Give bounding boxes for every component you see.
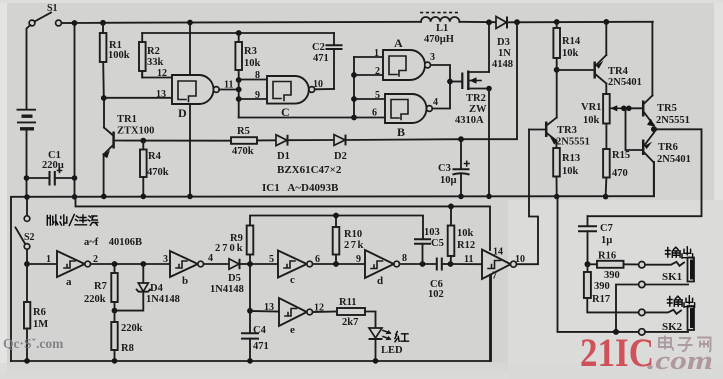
svg-text:11: 11 [224, 80, 233, 91]
jack SK1 tip circle [639, 262, 645, 268]
inverter a [27, 251, 90, 288]
resistor R8 220k [111, 311, 142, 361]
svg-text:9: 9 [255, 90, 260, 101]
svg-text:10k: 10k [457, 228, 474, 239]
svg-text:R13: R13 [562, 153, 580, 164]
resistor R1 100k [100, 20, 130, 98]
wire C output pin 10 to C2 [315, 88, 334, 90]
svg-text:R4: R4 [148, 151, 162, 162]
capacitor C3 10u [438, 139, 470, 196]
capacitor C6 102 [428, 258, 451, 301]
wire ground rail [11, 162, 654, 361]
svg-text:470k: 470k [147, 167, 169, 178]
svg-text:S2: S2 [24, 232, 35, 243]
transistor TR4 2N5401 [557, 22, 642, 94]
svg-text:390: 390 [604, 270, 620, 281]
node R10 bottom [333, 261, 339, 267]
wire S1 right to top rail [61, 22, 74, 24]
resistor R2 33k [139, 33, 164, 78]
svg-text:D3: D3 [497, 37, 510, 48]
svg-text:2: 2 [375, 66, 380, 77]
wire B out pin 4 [432, 82, 450, 109]
svg-text:TR2: TR2 [466, 93, 486, 104]
capacitor C4 471 [241, 325, 269, 361]
svg-text:R17: R17 [592, 294, 610, 305]
wire d out pin8 [400, 263, 437, 265]
capacitor C7 1u [578, 216, 613, 264]
svg-text:10: 10 [313, 79, 323, 90]
svg-text:ZTX100: ZTX100 [117, 126, 154, 137]
svg-text:100k: 100k [108, 50, 130, 61]
svg-text:c: c [290, 274, 295, 286]
wire D output pin 11 [219, 89, 239, 91]
svg-text:C2: C2 [312, 42, 325, 53]
resistor R14 10k [553, 22, 580, 70]
label pulse/continuous [47, 215, 98, 226]
svg-text:470: 470 [612, 168, 628, 179]
jack SK2 sleeve circle [639, 329, 645, 335]
svg-text:470k: 470k [232, 146, 254, 157]
diode D3 1N4148 [492, 17, 513, 71]
svg-text:BZX61C47×2: BZX61C47×2 [277, 164, 342, 176]
node R4 top [140, 138, 146, 144]
svg-text:11: 11 [464, 254, 473, 265]
inverter e [247, 264, 324, 336]
node C3 top [458, 136, 464, 142]
svg-text:b: b [182, 275, 188, 287]
svg-text:14: 14 [493, 247, 503, 258]
svg-text:1M: 1M [33, 319, 48, 330]
inverter f (pins 11/10, 14/7) [451, 247, 526, 282]
svg-text:2k7: 2k7 [342, 317, 358, 328]
capacitor C5 103 [414, 227, 444, 264]
diode D2 [334, 135, 461, 162]
diode D1 [276, 135, 334, 162]
svg-text:6: 6 [372, 108, 377, 119]
NAND gate C [267, 76, 315, 119]
jack SK2 tip circle [639, 309, 645, 315]
svg-text:220k: 220k [121, 323, 143, 334]
battery B1 [17, 110, 37, 129]
wire output node to right edge [588, 129, 702, 216]
svg-text:471: 471 [313, 53, 329, 64]
jack SK2 [662, 306, 694, 333]
svg-text:d: d [377, 275, 383, 287]
transistor TR3 2N5551 [529, 118, 590, 149]
resistor R3 10k [235, 30, 260, 80]
svg-text:TR1: TR1 [117, 114, 137, 125]
node TR1 collector / pin13 [101, 95, 107, 101]
svg-text:21IC: 21IC [580, 330, 654, 375]
wire pin 1 [354, 56, 383, 58]
node pin11 junction column [236, 77, 242, 83]
svg-text:4: 4 [433, 97, 438, 108]
svg-text:ZW: ZW [469, 104, 487, 115]
svg-text:3: 3 [163, 254, 168, 265]
svg-text:Qc·Sˇ.com: Qc·Sˇ.com [3, 336, 64, 351]
LED red [369, 328, 404, 361]
resistor R10 27k [333, 216, 365, 265]
svg-text:R5: R5 [237, 126, 250, 137]
svg-text:C7: C7 [600, 223, 613, 234]
wire A out pin 3 [431, 65, 451, 82]
svg-text:1N: 1N [498, 48, 511, 59]
svg-text:R15: R15 [612, 150, 630, 161]
wire b out pin4 [204, 263, 230, 265]
svg-text:470µH: 470µH [424, 34, 454, 45]
label output2 (Chinese) [668, 296, 695, 307]
transistor TR6 2N5401 [643, 128, 691, 196]
wire feedback line y33 [142, 32, 334, 34]
resistor R12 10k [448, 204, 475, 265]
svg-text:9: 9 [356, 254, 361, 265]
svg-text:TR5: TR5 [657, 103, 677, 114]
svg-text:D: D [178, 106, 187, 120]
svg-text:.com: .com [647, 346, 713, 375]
wire f out to TR3 base [517, 130, 539, 265]
inverter d [356, 250, 400, 287]
svg-text:R14: R14 [562, 36, 581, 47]
svg-text:2: 2 [93, 254, 98, 265]
wire SK1 sleeve [645, 284, 688, 286]
wire f pin7 to bottom rail [489, 275, 491, 361]
wire pin 6 / feedback from pin11 column [239, 117, 385, 119]
resistor R4 470k [140, 141, 169, 197]
svg-text:5: 5 [269, 254, 274, 265]
node C6/R12/f [448, 261, 454, 267]
wire VR1 wiper to TR5/TR6 bases [622, 107, 642, 109]
svg-text:e: e [290, 324, 295, 336]
node L1/D3 [486, 19, 492, 25]
node TR2 source at ground [486, 194, 492, 200]
svg-text:R16: R16 [598, 251, 616, 262]
svg-text:10k: 10k [244, 58, 261, 69]
svg-text:33k: 33k [147, 57, 164, 68]
svg-text:B: B [397, 125, 405, 139]
wire base drop to TR6 [626, 108, 642, 150]
svg-text:D1: D1 [277, 151, 290, 162]
jack SK1 sleeve circle [639, 281, 645, 287]
svg-text:C4: C4 [253, 325, 267, 336]
svg-text:13: 13 [264, 302, 274, 313]
wire long vertical x190 [189, 23, 191, 197]
svg-text:L1: L1 [436, 23, 448, 34]
svg-text:R3: R3 [244, 46, 257, 57]
svg-text:4: 4 [208, 253, 213, 264]
svg-text:a~f 40106B: a~f 40106B [84, 237, 142, 248]
svg-text:VR1: VR1 [581, 102, 601, 113]
wire pin 5 [354, 98, 385, 100]
svg-text:2N5401: 2N5401 [608, 77, 642, 88]
inductor L1 470uH [420, 13, 459, 45]
wire a out [91, 263, 171, 265]
svg-text:220k: 220k [84, 294, 106, 305]
svg-text:IC1 A~D4093B: IC1 A~D4093B [262, 182, 339, 194]
svg-text:4310A: 4310A [455, 115, 484, 126]
svg-text:10k: 10k [562, 48, 579, 59]
svg-text:3: 3 [430, 52, 435, 63]
svg-text:R6: R6 [33, 307, 46, 318]
resistor R17 390 [584, 264, 639, 312]
wire TR1 base [115, 140, 231, 142]
label output1 (Chinese) [666, 247, 693, 258]
svg-text:R7: R7 [94, 281, 107, 292]
resistor R7 220k [84, 264, 118, 311]
node battery/C1 [24, 175, 30, 181]
svg-text:TR3: TR3 [557, 125, 577, 136]
wire pin 2 [354, 74, 383, 76]
capacitor C2 471 [312, 33, 343, 89]
svg-text:1N4148: 1N4148 [210, 284, 244, 295]
wire c out pin6 [313, 263, 366, 265]
svg-text:13: 13 [156, 89, 166, 100]
svg-text:8: 8 [402, 253, 407, 264]
wire to SK2 tip [645, 310, 681, 314]
svg-text:R11: R11 [339, 297, 357, 308]
svg-text:R10: R10 [344, 229, 362, 240]
wire pin 13 [104, 97, 172, 99]
resistor R15 470 [603, 124, 630, 197]
switch S1 [29, 3, 61, 26]
wire battery to ground rail [26, 130, 28, 197]
resistor R16 390 [588, 251, 639, 282]
svg-text:TR4: TR4 [608, 66, 629, 77]
wire lower supply rail [76, 197, 491, 250]
node R14 bottom / TR4 base [554, 67, 560, 73]
svg-text:270k: 270k [215, 243, 245, 254]
svg-text:S1: S1 [47, 3, 58, 14]
svg-text:6: 6 [315, 254, 320, 265]
svg-text:C5: C5 [431, 238, 444, 249]
svg-text:471: 471 [253, 341, 269, 352]
svg-text:D4: D4 [150, 283, 164, 294]
node TR2 gate [447, 79, 453, 85]
resistor R9 270k [215, 216, 423, 265]
resistor R6 1M [24, 264, 48, 361]
transistor TR1 ZTX100 [103, 100, 154, 196]
wire bottom rail [11, 272, 491, 362]
jack SK1 [662, 258, 694, 284]
svg-text:5: 5 [375, 90, 380, 101]
svg-text:R8: R8 [121, 343, 134, 354]
svg-text:8: 8 [255, 70, 260, 81]
inverter b [163, 251, 204, 287]
svg-text:4148: 4148 [492, 59, 513, 70]
resistor R5 470k [231, 126, 276, 157]
svg-text:1: 1 [46, 254, 51, 265]
node C7/R16/R17 [585, 261, 591, 267]
NAND gate D [172, 75, 219, 120]
svg-text:A: A [394, 36, 403, 50]
NAND gate B [385, 94, 432, 139]
svg-text:a: a [66, 276, 72, 288]
wire S1 left down to battery [27, 25, 31, 109]
node D5/R9/C4 [247, 261, 253, 267]
diode D5 1N4148 [210, 259, 250, 295]
svg-text:1N4148: 1N4148 [146, 294, 180, 305]
NAND gate A [383, 36, 431, 80]
resistor R13 10k [553, 148, 580, 197]
svg-text:1µ: 1µ [601, 235, 612, 246]
node C5 bottom [420, 261, 426, 267]
svg-text:TR6: TR6 [658, 142, 678, 153]
svg-text:C3: C3 [438, 163, 451, 174]
svg-text:10µ: 10µ [440, 175, 457, 186]
wire pin 9 [239, 98, 267, 100]
wire top rail left segment [75, 22, 104, 24]
svg-text:10k: 10k [562, 166, 579, 177]
svg-text:12: 12 [157, 68, 167, 79]
svg-text:D2: D2 [334, 151, 347, 162]
diode D4 1N4148 (zener) [115, 264, 180, 311]
wire ground to jacks [558, 197, 639, 332]
svg-text:D5: D5 [228, 273, 241, 284]
label red (Chinese) [395, 332, 409, 342]
svg-text:10k: 10k [583, 115, 600, 126]
node TR5/TR6 emitters [651, 126, 657, 132]
node C1 right on riser [72, 175, 78, 181]
wire R2 bottom to pin 12 [142, 71, 172, 78]
switch S2 [16, 197, 35, 264]
wire to SK1 tip [645, 262, 684, 266]
potentiometer VR1 10k [581, 94, 622, 126]
wire input bus x354 [353, 57, 355, 118]
svg-text:1: 1 [374, 48, 379, 59]
svg-text:R2: R2 [147, 46, 160, 57]
node S2/R6/a [24, 261, 30, 267]
svg-text:2N5401: 2N5401 [657, 154, 691, 165]
wire riser x75 top rail to ground [74, 23, 76, 197]
mosfet TR2 ZW4310A [450, 22, 492, 196]
capacitor C1 220u [27, 150, 75, 186]
wire pin 8 [239, 79, 267, 81]
svg-text:7: 7 [492, 271, 497, 282]
svg-text:2N5551: 2N5551 [556, 137, 590, 148]
wire D3 cathode branch down x517 [461, 22, 517, 139]
svg-text:LED: LED [381, 345, 403, 356]
svg-text:SK1: SK1 [662, 271, 682, 283]
svg-text:103: 103 [424, 227, 440, 238]
svg-text:102: 102 [428, 289, 444, 300]
svg-text:2N5551: 2N5551 [656, 115, 690, 126]
resistor R11 2k7 [313, 297, 376, 328]
transistor TR5 2N5551 [643, 22, 690, 127]
svg-text:220µ: 220µ [42, 160, 64, 171]
svg-text:390: 390 [594, 281, 610, 292]
svg-text:27k: 27k [344, 240, 365, 251]
watermark 21IC logo [580, 330, 713, 375]
svg-text:R12: R12 [457, 240, 475, 251]
inverter c [250, 251, 313, 287]
